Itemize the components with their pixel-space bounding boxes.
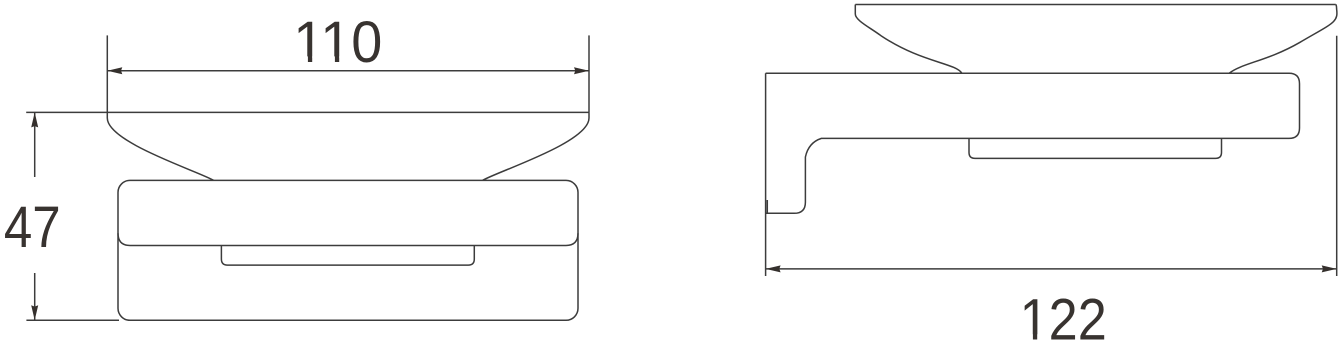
front view: dish right profile curve (483, 112, 590, 180)
svg-text:110: 110 (293, 10, 382, 75)
dimension 110: dimension line (107, 70, 589, 72)
side view: dish left profile curve (855, 5, 962, 74)
svg-text:47: 47 (4, 195, 61, 260)
white masks to remove Liberation "1" foot serifs (target uses bar-less 1) (297, 56, 1049, 341)
front view: holder mid separation line with upturned ends (118, 233, 578, 245)
dimension 110: left extension line (106, 35, 108, 112)
arrowhead: 110 right (574, 67, 589, 74)
side view: dish right profile curve (1229, 5, 1337, 74)
arrowhead: 47 bottom (31, 305, 38, 320)
arrowhead: 122 right (1322, 265, 1337, 272)
dimension 122: right extension line (1336, 36, 1338, 276)
side view: bottom-left step edge (doubled line) (766, 200, 768, 213)
front view: holder body outline (rounded rectangle silhouette) (118, 180, 578, 320)
front view: dish top surface line (also 47 top extension line) (26, 111, 589, 113)
side view: inner lip under arm (969, 139, 1222, 159)
front view: dish left profile curve (107, 112, 214, 180)
dimension 110: right extension line (588, 35, 590, 112)
arrowhead: 47 top (31, 112, 38, 127)
front view: inner lip under holder (221, 246, 474, 266)
dimension 47: bottom extension line (collinear with holder bottom) (26, 319, 119, 321)
dimension 122: left extension line (below wall plate) (765, 214, 767, 277)
dimension 122: dimension line (766, 268, 1337, 270)
dimension 47: dimension line (34, 112, 36, 177)
dimension 47: dimension line lower segment (34, 273, 36, 320)
arrowhead: 122 left (766, 265, 781, 272)
side view: dish top surface line (855, 4, 1336, 6)
arrowhead: 110 left (107, 67, 122, 74)
side view: wall bracket and arm outline (766, 73, 1300, 213)
